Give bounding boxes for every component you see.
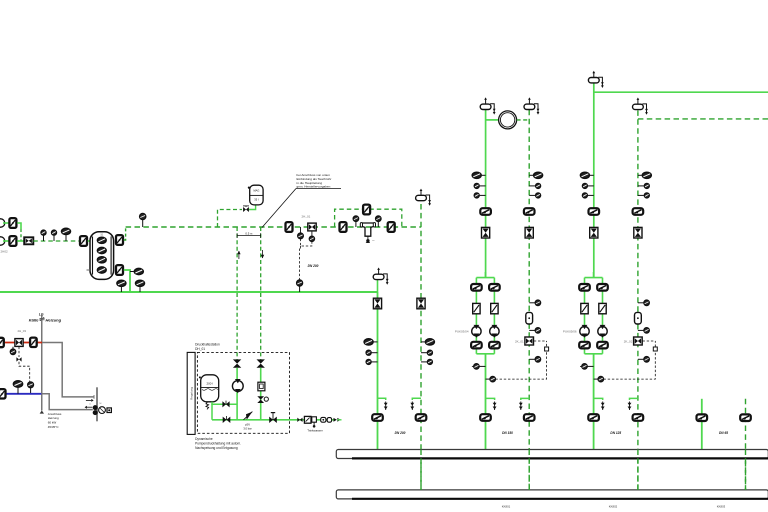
sensor on main supply below 2H_01 bbox=[297, 280, 303, 286]
tank nozzle sensor 3 bbox=[97, 257, 106, 263]
sensor gauge strainer right bbox=[376, 216, 381, 221]
butterfly riser B supply bbox=[590, 227, 598, 238]
vessel drain squiggle bbox=[206, 402, 209, 410]
sensor return mid bbox=[535, 328, 540, 333]
wire: tank top-right to return (dashed green) bbox=[124, 228, 126, 240]
wire: riser A return (dashed green) bbox=[528, 110, 530, 490]
wire: dashed return crossing header 3 bbox=[637, 450, 639, 491]
wire: riser B supply (solid green) bbox=[593, 83, 595, 277]
air vent on return riser pair-1 bbox=[416, 195, 427, 200]
flow meter bbox=[499, 111, 517, 129]
valve branch1 top bbox=[471, 284, 482, 291]
wire: riser pair-1 supply drop bbox=[377, 292, 379, 449]
svg-text:DN 125: DN 125 bbox=[610, 431, 621, 435]
svg-text:DN 150: DN 150 bbox=[502, 431, 513, 435]
wire: vessel connection (green) bbox=[212, 402, 237, 405]
sensor thermometer s3 bbox=[62, 228, 71, 234]
wire: dashed return crossing header 4 bbox=[745, 450, 747, 491]
sensor: small gauge 1 bbox=[474, 183, 479, 188]
control line pump group (dashed) bbox=[604, 341, 656, 379]
valve branch2 bottom bbox=[489, 342, 500, 349]
balancing valve return bbox=[526, 312, 533, 324]
wire: gray pipe from red to HX bbox=[42, 343, 94, 397]
svg-text:M: M bbox=[100, 403, 102, 405]
svg-text:Anschluss: Anschluss bbox=[48, 412, 62, 416]
valve riser A return bbox=[524, 208, 535, 215]
wire: riser A supply (solid green) bbox=[485, 110, 487, 278]
svg-text:2K_01: 2K_01 bbox=[515, 339, 524, 343]
wire: main supply line (solid green) bbox=[0, 291, 378, 293]
svg-text:Heizung: Heizung bbox=[46, 318, 62, 323]
safety valve pSV bbox=[246, 412, 252, 420]
wire: riser B return (dashed green) bbox=[637, 110, 639, 490]
sensor: thermometer well bbox=[580, 172, 589, 178]
svg-text:Regelung: Regelung bbox=[190, 387, 194, 400]
flow arrow up on drop 1 bbox=[238, 251, 240, 259]
cold line (blue) bbox=[0, 393, 41, 395]
balancing valve return bbox=[635, 312, 642, 324]
control line red (dashed) bbox=[18, 347, 20, 357]
valve bottom supply bbox=[480, 414, 491, 421]
drain stub supply bbox=[486, 398, 495, 400]
station boundary box (dashed) bbox=[197, 352, 289, 433]
svg-text:45/35°C: 45/35°C bbox=[48, 425, 60, 429]
valve branch2 top bbox=[489, 284, 500, 291]
butterfly valve row2 bbox=[17, 240, 24, 242]
svg-text:KK802: KK802 bbox=[609, 504, 618, 508]
svg-text:0.5 m: 0.5 m bbox=[245, 231, 253, 235]
wire: pressure-holding drop 1 (dashed green) bbox=[236, 227, 238, 364]
wire: MAG vessel stub bbox=[249, 205, 256, 210]
makeup motor valve bbox=[257, 396, 264, 399]
wire: meter stub dashed bbox=[517, 119, 530, 121]
header bar KK bottom bbox=[336, 490, 768, 499]
sensor return upper bbox=[535, 300, 540, 305]
valve on red line (edge) bbox=[0, 338, 4, 347]
valve right drop return bbox=[740, 414, 751, 421]
system boundary LG line bbox=[41, 315, 43, 411]
pump P2 connection (edge) bbox=[0, 237, 5, 245]
callout leader line bbox=[262, 189, 296, 228]
svg-text:Nachspeisung und Entgasung: Nachspeisung und Entgasung bbox=[195, 446, 238, 450]
svg-text:2H_03: 2H_03 bbox=[18, 329, 27, 333]
flow arrow right bbox=[86, 399, 91, 401]
makeup unit box bbox=[258, 382, 265, 391]
sensor: thermometer well bbox=[534, 172, 543, 178]
air vent riser B return bbox=[633, 104, 644, 109]
valve V7 bypass top bbox=[363, 205, 370, 215]
balancing valve branch1 bbox=[473, 303, 480, 313]
sensor: thermometer well bbox=[425, 339, 434, 345]
header bar KK top bbox=[336, 450, 768, 459]
svg-text:PUK05/06: PUK05/06 bbox=[563, 329, 577, 333]
sensor gauge on cold line bbox=[28, 382, 34, 388]
valve bottom return bbox=[633, 414, 644, 421]
drain stub supply bbox=[594, 398, 603, 400]
tank nozzle sensor 4 bbox=[97, 267, 106, 273]
sensor gauge s1 bbox=[41, 230, 46, 235]
sensor return lower bbox=[535, 357, 540, 362]
sensor return upper bbox=[644, 300, 649, 305]
valve riser B supply bbox=[589, 208, 600, 215]
sensor thermometer on main line 1 bbox=[117, 280, 126, 286]
svg-text:Pumpendruckhaltung mit autom.: Pumpendruckhaltung mit autom. bbox=[195, 442, 241, 446]
valve branch2 bottom bbox=[597, 342, 608, 349]
sensor on riser w/ control bbox=[490, 376, 495, 381]
wire: riser B return top header (dashed) bbox=[638, 118, 768, 120]
sensor: small gauge 2 bbox=[644, 193, 649, 198]
sensor: small gauge 2 bbox=[474, 193, 479, 198]
wire: dashed return crossing header 1 bbox=[420, 450, 422, 491]
valve right drop supply bbox=[697, 414, 708, 421]
control line 2H_01 (dashed) bbox=[301, 239, 312, 246]
butterfly riser B return bbox=[634, 227, 642, 238]
pump PUK05/06 2 bbox=[598, 327, 607, 336]
pump DH bbox=[232, 381, 243, 392]
svg-text:DH_01: DH_01 bbox=[195, 347, 205, 351]
svg-text:Heizung: Heizung bbox=[48, 416, 59, 420]
wire: right drop supply (solid green) bbox=[701, 399, 703, 449]
sensor: small gauge 2 bbox=[536, 193, 541, 198]
fitting 1 bbox=[321, 417, 326, 422]
flow arrow down on drop 2 bbox=[262, 250, 264, 258]
air vent on supply riser pair-1 bbox=[373, 274, 384, 279]
valve V6 before 2H_01 bbox=[286, 222, 293, 232]
valve on red line bbox=[30, 338, 37, 347]
sensor gauge below red line bbox=[10, 349, 15, 354]
valve riser B return bbox=[633, 208, 644, 215]
balancing valve branch2 bbox=[491, 303, 498, 313]
air vent riser A return bbox=[524, 104, 535, 109]
sensor below merge bbox=[474, 364, 479, 369]
wire: main return line (dashed green) bbox=[126, 226, 421, 228]
heating supply line (red) bbox=[0, 342, 42, 344]
valve return riser-1 bottom bbox=[416, 414, 427, 421]
sensor: thermometer well bbox=[472, 172, 481, 178]
valve branch1 top bbox=[579, 284, 590, 291]
control line pump group (dashed) bbox=[495, 341, 546, 379]
drain stub return bbox=[630, 398, 638, 400]
balancing valve branch2 bbox=[599, 303, 606, 313]
svg-text:Kälte: Kälte bbox=[29, 318, 40, 323]
wire: station right vertical (green) bbox=[260, 368, 262, 420]
sensor return mid bbox=[644, 328, 649, 333]
sensor: small gauge 2 bbox=[366, 359, 371, 364]
sensor: small gauge 1 bbox=[582, 183, 587, 188]
wire: row1 to row2 elbow bbox=[17, 223, 21, 229]
sensor gauge on return line bbox=[140, 213, 146, 219]
wire: dashed return crossing header 2 bbox=[528, 450, 530, 491]
control junction box bbox=[653, 347, 657, 351]
sensor thermometer at tank outlet bbox=[134, 268, 143, 274]
buffer tank SP01 bbox=[90, 232, 114, 280]
wire: tank bottom-right outlet to main supply bbox=[124, 270, 130, 292]
expansion vessel MAG 35l bbox=[250, 185, 263, 205]
control cabinet Regelung bbox=[187, 352, 195, 434]
motor valve 2H_01 bbox=[308, 223, 316, 231]
wire: station bottom line (green) bbox=[212, 419, 334, 421]
pump PUK03/04 2 bbox=[490, 327, 499, 336]
wire: pump group PUK05/06 branches bbox=[585, 277, 603, 279]
sensor: small gauge 1 bbox=[644, 183, 649, 188]
shutoff valve drop1 bbox=[233, 359, 241, 363]
motor valve 2K_02 bbox=[634, 337, 643, 345]
svg-text:PUK03/04: PUK03/04 bbox=[455, 329, 469, 333]
wire: MAG branch (dashed green) bbox=[218, 210, 243, 228]
sensor: small gauge 2 bbox=[582, 193, 587, 198]
valve V1 row1 bbox=[3, 222, 9, 224]
fitting 2 bbox=[327, 418, 331, 423]
sensor on riser w/ control bbox=[598, 376, 603, 381]
valve V3 tank inlet bbox=[80, 236, 87, 246]
mixing valve assembly bbox=[93, 405, 98, 410]
svg-text:DN 65: DN 65 bbox=[719, 431, 728, 435]
sensor gauge strainer left bbox=[353, 216, 358, 221]
drain stub supply riser-1 bbox=[378, 398, 386, 400]
valve bottom supply bbox=[588, 414, 599, 421]
control line valve to loop (dashed) bbox=[534, 340, 547, 342]
butterfly valve supply riser-1 bbox=[373, 298, 381, 309]
sensor return lower bbox=[644, 357, 649, 362]
svg-text:35 l: 35 l bbox=[254, 198, 259, 202]
wire: sensor run row2 (dashed) bbox=[33, 240, 79, 242]
valve branch2 top bbox=[597, 284, 608, 291]
tank nozzle sensor 2 bbox=[97, 247, 106, 253]
air vent riser A supply bbox=[480, 104, 491, 109]
sensor: thermometer well bbox=[642, 172, 651, 178]
HX vertical pipe bbox=[96, 387, 98, 421]
control junction box bbox=[545, 347, 549, 351]
sensor gauge left of 2H_01 bbox=[300, 227, 302, 233]
svg-text:2K_02: 2K_02 bbox=[624, 339, 633, 343]
sensor below merge bbox=[582, 364, 587, 369]
tank nozzle sensor 1 bbox=[97, 237, 106, 243]
drain stub return bbox=[521, 398, 529, 400]
valve branch1 bottom bbox=[579, 342, 590, 349]
sensor: small gauge 1 bbox=[427, 350, 432, 355]
valve V9 strainer right bbox=[388, 222, 395, 232]
sensor thermometer on blue line bbox=[13, 381, 22, 387]
pump P1 connection (edge) bbox=[0, 219, 5, 227]
valve V4 tank top right bbox=[116, 235, 123, 245]
vessel valve bbox=[222, 401, 226, 407]
drain stub return riser-1 bbox=[412, 398, 421, 400]
dimension 0.5 m bbox=[237, 235, 261, 237]
wire: riser pair-1 return drop (dashed) bbox=[420, 204, 422, 490]
wire: station left vertical (green) bbox=[236, 368, 238, 420]
svg-text:3.0 bar: 3.0 bar bbox=[243, 427, 251, 431]
svg-text:pSV: pSV bbox=[245, 423, 250, 427]
wire: vent stub above main supply bbox=[377, 280, 379, 292]
sensor gauge s2 bbox=[52, 230, 57, 235]
wire: gray pipe from blue to HX bbox=[41, 394, 92, 410]
valve V2 row2 bbox=[3, 240, 9, 242]
backflow preventer bbox=[297, 418, 300, 422]
wire: right drop return (dashed green) bbox=[745, 399, 747, 490]
svg-text:2H_01: 2H_01 bbox=[302, 214, 311, 218]
wire: bypass loop (dashed green) bbox=[335, 209, 402, 227]
sensor thermometer on main line 2 bbox=[136, 280, 145, 286]
svg-text:DN 200: DN 200 bbox=[308, 264, 319, 268]
wire: riser B supply top header bbox=[594, 91, 768, 93]
pump PUK05/06 1 bbox=[580, 327, 589, 336]
station valve right with handle bbox=[269, 417, 273, 423]
svg-text:gem. Herstellervorgaben: gem. Herstellervorgaben bbox=[297, 185, 331, 189]
valve bottom return bbox=[524, 414, 535, 421]
air vent riser B supply bbox=[588, 78, 599, 83]
svg-text:DN 200: DN 200 bbox=[395, 431, 406, 435]
valve supply riser-1 bottom bbox=[372, 414, 383, 421]
control line valve to loop (dashed) bbox=[643, 340, 656, 342]
motor valve 2K_01 bbox=[525, 337, 534, 345]
butterfly riser A supply bbox=[482, 227, 490, 238]
station valve left bbox=[223, 417, 227, 423]
svg-text:2H02: 2H02 bbox=[1, 250, 9, 254]
shutoff valve drop2 bbox=[257, 359, 265, 363]
svg-text:Trinkwasser: Trinkwasser bbox=[307, 429, 323, 433]
svg-text:KK803: KK803 bbox=[717, 504, 726, 508]
flow arrow left bbox=[87, 406, 92, 408]
filter w/ drain bbox=[312, 417, 317, 422]
supply arrow Trinkwasser bbox=[334, 418, 337, 422]
butterfly valve return riser-1 bbox=[417, 298, 425, 309]
wire: meter stub solid bbox=[486, 119, 499, 121]
sensor: thermometer well bbox=[364, 339, 373, 345]
motor valve 2H_03 bbox=[15, 339, 23, 347]
valve V8 strainer left bbox=[340, 222, 347, 232]
sensor: small gauge 2 bbox=[427, 359, 432, 364]
sensor: small gauge 1 bbox=[536, 183, 541, 188]
strainer filter bbox=[362, 223, 375, 236]
sensor: small gauge 1 bbox=[366, 350, 371, 355]
water meter box bbox=[304, 416, 311, 423]
svg-text:60 kW: 60 kW bbox=[48, 421, 57, 425]
valve branch1 bottom bbox=[471, 342, 482, 349]
svg-text:KK801: KK801 bbox=[502, 504, 511, 508]
butterfly riser A return bbox=[525, 227, 533, 238]
pump PUK03/04 1 bbox=[472, 327, 481, 336]
valve riser A supply bbox=[480, 208, 491, 215]
balancing valve branch1 bbox=[581, 303, 588, 313]
valve V5 tank bottom right bbox=[116, 265, 123, 275]
expansion vessel 200l bbox=[201, 375, 219, 402]
wire: pump group PUK03/04 branches bbox=[476, 277, 494, 279]
small valve below 2H_01 bbox=[311, 232, 313, 237]
wire: pressure-holding drop 2 (dashed green) bbox=[260, 227, 262, 364]
svg-text:MAG: MAG bbox=[253, 189, 259, 193]
valve on blue line (edge) bbox=[0, 389, 6, 398]
svg-text:Dynamische: Dynamische bbox=[195, 437, 213, 441]
cap valve at MAG bbox=[243, 207, 246, 212]
svg-text:200 l: 200 l bbox=[206, 381, 213, 385]
